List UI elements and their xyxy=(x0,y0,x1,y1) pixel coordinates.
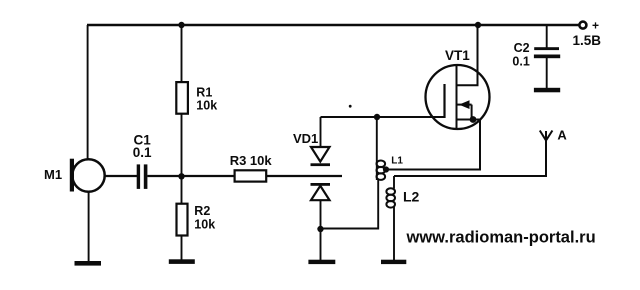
wire: M1 to C1 xyxy=(105,175,137,177)
source stub xyxy=(457,119,481,121)
wire: C1 to R3 xyxy=(147,175,234,177)
svg-text:R2: R2 xyxy=(194,204,210,218)
capacitor C2 xyxy=(512,25,560,88)
antenna A xyxy=(540,128,568,143)
svg-text:10k: 10k xyxy=(196,99,217,113)
node: VD1 bottom junction xyxy=(317,226,323,232)
transistor VT1 (MOSFET) xyxy=(426,25,490,129)
svg-text:1.5В: 1.5В xyxy=(573,33,602,48)
svg-text:VD1: VD1 xyxy=(293,131,318,146)
wire: microphone to ground xyxy=(88,192,90,263)
wire: bias line from VD1 top to VT1 gate xyxy=(321,116,445,118)
svg-text:R1: R1 xyxy=(196,86,212,100)
resistor R2 xyxy=(177,176,216,261)
microphone M1 xyxy=(44,159,105,192)
ground (under C2) xyxy=(534,88,560,93)
wire: VD1 junction to L1 bottom xyxy=(321,180,379,229)
node: bias line / L1 junction xyxy=(374,114,380,120)
svg-text:www.radioman-portal.ru: www.radioman-portal.ru xyxy=(406,229,596,247)
node: rail / VT1 drain junction xyxy=(475,22,481,28)
svg-text:M1: M1 xyxy=(44,167,62,182)
ground (under VD1) xyxy=(308,260,335,264)
resistor R1 xyxy=(176,25,217,176)
battery positive terminal xyxy=(579,19,599,33)
ground (under R2) xyxy=(169,259,195,264)
svg-text:10k: 10k xyxy=(194,218,215,232)
resistor R3 xyxy=(230,153,273,182)
node: divider junction xyxy=(178,173,184,179)
capacitor C1 xyxy=(133,133,152,189)
svg-text:R3 10k: R3 10k xyxy=(230,153,273,168)
varicap pair VD1 xyxy=(293,117,330,261)
svg-text:L2: L2 xyxy=(403,189,420,205)
svg-text:L1: L1 xyxy=(391,156,403,167)
svg-text:+: + xyxy=(592,19,599,33)
node: L1 tap xyxy=(383,166,389,172)
svg-text:0.1: 0.1 xyxy=(133,145,152,160)
svg-text:0.1: 0.1 xyxy=(512,55,529,69)
wire: L2 top to antenna xyxy=(394,140,546,176)
channel xyxy=(456,66,458,129)
ground (under M1) xyxy=(75,261,102,266)
wire: R3 to VD1 plate xyxy=(266,175,342,177)
gate xyxy=(443,84,445,118)
node: rail / R1 junction xyxy=(178,22,184,28)
inductor L1 xyxy=(377,117,404,180)
wire: L1 tap to VT1 source xyxy=(386,120,480,170)
inductor L2 xyxy=(386,176,419,261)
svg-text:VT1: VT1 xyxy=(445,48,470,63)
wire: top supply rail xyxy=(87,24,583,26)
svg-text:C2: C2 xyxy=(514,41,530,55)
svg-text:A: A xyxy=(557,128,567,143)
drain stub xyxy=(457,25,478,85)
speck (scan noise) xyxy=(349,105,352,108)
wire: rail down to microphone xyxy=(87,25,89,160)
substrate arrow xyxy=(457,104,472,106)
ground (under L2) xyxy=(381,260,406,264)
